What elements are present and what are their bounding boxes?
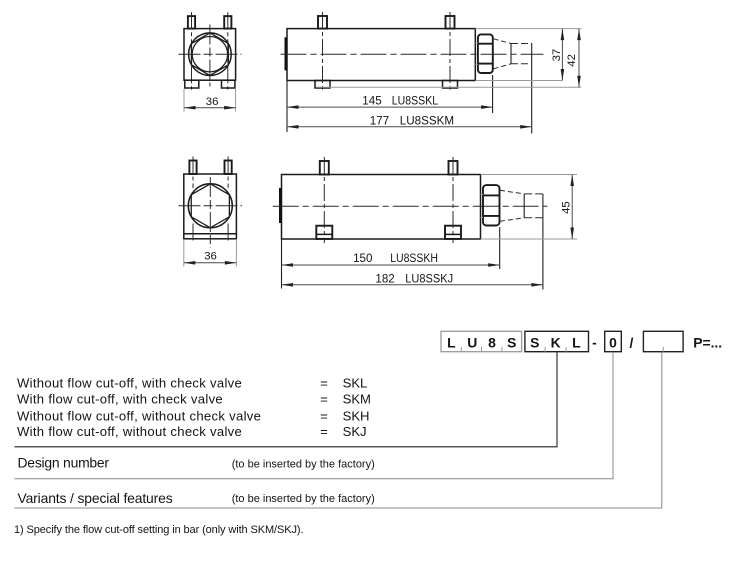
side view A bolt 1 [318, 16, 327, 29]
svg-text:177: 177 [370, 115, 389, 128]
side view A dashed taper bottom [494, 64, 512, 69]
end view A dim 36 extension left [183, 89, 185, 112]
end view B clamp plate line [184, 233, 237, 235]
end view B bolt right [225, 161, 232, 175]
side view A top extension line [475, 28, 581, 30]
side view A extension for 145 [492, 75, 494, 113]
svg-text:LU8SSKJ: LU8SSKJ [405, 273, 453, 286]
side view A hex nut facet lines [478, 43, 492, 45]
svg-text:LU8SSKL: LU8SSKL [392, 95, 439, 108]
side view A nut neck [475, 42, 478, 44]
side view A dim 37 [561, 29, 563, 81]
side view B left extension [281, 239, 283, 289]
end view A vertical centerline [209, 25, 211, 87]
side view A dim 42 [578, 29, 580, 88]
side view A bolt 2 centerline [449, 12, 451, 90]
svg-text:U: U [467, 334, 477, 350]
end view A dim 36 extension right [235, 89, 237, 112]
svg-text:-: - [592, 334, 597, 350]
side view B left end cap [279, 188, 282, 223]
svg-text:P=...: P=... [693, 334, 722, 350]
side view A dashed end piece [510, 44, 512, 64]
side view A dashed taper top [494, 39, 512, 44]
side view B hex nut [483, 185, 500, 225]
svg-text:K: K [551, 334, 561, 350]
side view A ext line 37 bottom [475, 80, 562, 82]
svg-text:=: = [320, 408, 328, 423]
end view B bolt centerline right [227, 157, 229, 189]
leader 1: SKL box to list [14, 352, 557, 447]
side view B dim 150 [282, 264, 500, 266]
side view B dim 182 [282, 284, 543, 286]
end view A body square [184, 29, 236, 81]
end view B dim 36 extension left [183, 239, 185, 267]
side view B nut neck [481, 194, 484, 196]
side view B hex nut facet lines [483, 194, 499, 196]
end view B circle [188, 184, 232, 228]
svg-text:0: 0 [609, 334, 617, 350]
svg-text:(to be inserted by the factory: (to be inserted by the factory) [232, 458, 375, 470]
side view A ext line 42 bottom [316, 86, 581, 88]
code box empty [643, 331, 683, 351]
leader 3: empty box to variants rule [14, 352, 661, 508]
svg-text:L: L [572, 334, 581, 350]
side view B bottom clamp 1 [316, 226, 332, 239]
end view B bolt centerline left [192, 157, 194, 189]
side view A foot 2 [443, 81, 458, 89]
side view B horizontal centerline [273, 205, 548, 207]
end view A foot right [222, 80, 235, 88]
side view A hex nut [478, 34, 493, 73]
end view B hexagon [191, 184, 229, 228]
svg-text:Design number: Design number [18, 454, 110, 470]
side view B top extension line [481, 174, 578, 176]
svg-text:1) Specify the flow cut-off se: 1) Specify the flow cut-off setting in b… [14, 524, 303, 536]
end view B bolt left [189, 161, 196, 175]
svg-text:With flow cut-off, without che: With flow cut-off, without check valve [17, 424, 242, 439]
end view A foot left [185, 80, 199, 88]
svg-text:With flow cut-off, with check: With flow cut-off, with check valve [17, 392, 223, 407]
svg-text:LU8SSKM: LU8SSKM [400, 115, 454, 128]
code box SKL [525, 331, 589, 351]
end view A outer circle [189, 33, 232, 76]
side view B bolt 1 [320, 161, 329, 175]
leader 2: 0 box to design number rule [14, 352, 613, 478]
side view B extension for 182 [542, 194, 544, 290]
side view B body [282, 175, 481, 240]
side view B dim 45 [571, 175, 573, 240]
side view A body [287, 29, 475, 81]
svg-text:SKM: SKM [343, 392, 371, 407]
svg-text:L: L [447, 334, 456, 350]
svg-text:SKL: SKL [343, 375, 368, 390]
end view B dim 36 extension right [235, 239, 237, 267]
side view A dim 145 [287, 106, 493, 108]
side view B bolt 2 [449, 161, 458, 175]
code box 0 [605, 331, 622, 351]
side view B bolt 2 centerline [452, 157, 454, 243]
end view A bolt centerline right [227, 12, 229, 89]
svg-text:45: 45 [561, 201, 573, 214]
end view A bolt right [224, 16, 231, 29]
svg-text:150: 150 [353, 252, 372, 265]
side view A bolt 1 centerline [322, 12, 324, 90]
svg-text:Variants / special features: Variants / special features [18, 490, 173, 506]
svg-text:=: = [320, 375, 328, 390]
svg-text:36: 36 [204, 251, 217, 263]
side view B end piece [523, 194, 525, 218]
end view B horizontal centerline [179, 205, 243, 207]
svg-text:145: 145 [362, 95, 381, 108]
end view A inner circle [192, 37, 227, 72]
end view A dim 36 line [184, 107, 236, 109]
end view A bolt left [188, 16, 195, 29]
svg-text:=: = [320, 392, 328, 407]
svg-text:/: / [629, 334, 633, 350]
svg-text:SKH: SKH [343, 408, 370, 423]
end view B dim 36 line [184, 262, 237, 264]
svg-text:SKJ: SKJ [343, 424, 367, 439]
side view A horizontal centerline [281, 53, 544, 55]
svg-text:(to be inserted by the factory: (to be inserted by the factory) [232, 493, 375, 505]
svg-text:182: 182 [375, 273, 394, 286]
end view A bolt centerline left [191, 12, 193, 89]
side view B bottom extension line [481, 238, 578, 240]
code box LU8S [441, 331, 522, 351]
svg-text:8: 8 [488, 334, 496, 350]
svg-text:36: 36 [206, 96, 219, 108]
svg-text:S: S [530, 334, 539, 350]
side view B extension for 150 [499, 227, 501, 269]
side view B bolt 1 centerline [323, 157, 325, 243]
side view B dashed taper bottom [500, 218, 524, 222]
side view A left end cap [284, 37, 287, 70]
svg-text:37: 37 [551, 49, 563, 62]
svg-text:Without flow cut-off, without: Without flow cut-off, without check valv… [17, 408, 261, 423]
end view B body square [184, 174, 237, 239]
svg-text:LU8SSKH: LU8SSKH [390, 252, 438, 265]
end view A hexagon [191, 33, 228, 76]
side view A dim 177 [287, 126, 532, 128]
side view A foot 1 [315, 81, 330, 89]
svg-text:S: S [507, 334, 516, 350]
side view B dashed taper top [500, 190, 524, 194]
side view A left extension for 145/177 [286, 81, 288, 133]
end view B vertical centerline [209, 177, 211, 248]
side view A extension for 177 (right edge of end piece) [531, 43, 533, 133]
svg-text:Without flow cut-off, with che: Without flow cut-off, with check valve [17, 375, 242, 390]
side view B bottom clamp 2 [445, 226, 461, 239]
side view A bolt 2 [446, 16, 455, 29]
svg-text:42: 42 [566, 54, 578, 67]
end view A horizontal centerline [179, 53, 242, 55]
svg-text:=: = [320, 424, 328, 439]
